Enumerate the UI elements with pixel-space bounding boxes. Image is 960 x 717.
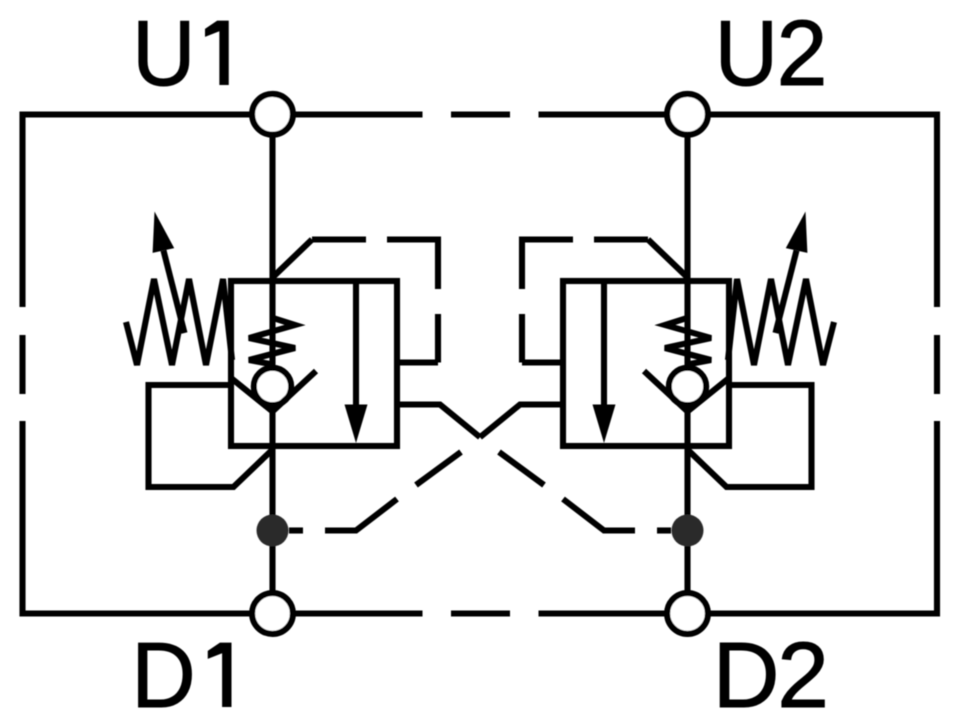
cross pilot line to V2 dash b: [325, 499, 397, 531]
junction node left: [257, 515, 289, 547]
valve V2 check spring: [665, 318, 711, 365]
valve V2 pilot diagonal: [648, 240, 687, 277]
valve V1 relief spring: [126, 279, 232, 365]
valve V2 check seat: [644, 371, 729, 412]
valve V2 flow arrowhead: [593, 405, 616, 444]
label D1: [131, 623, 231, 717]
enclosure border bottom-right corner: [710, 421, 937, 614]
port D1: [252, 593, 293, 634]
valve V1 body: [231, 281, 397, 446]
valve V1 adjust arrow shaft: [164, 251, 185, 334]
wire U1-D1 main line: [269, 115, 275, 614]
valve V1 flow arrow: [353, 283, 359, 408]
cross pilot line to V1 dash a: [657, 527, 671, 533]
valve V2 pilot dash c: [519, 314, 525, 363]
valve V2 flow arrow: [601, 283, 607, 408]
cross pilot line to V2 dash a: [289, 527, 303, 533]
label U2: [715, 1, 828, 105]
svg-text:U: U: [715, 2, 778, 106]
valve V1 check seat: [231, 371, 316, 412]
valve V1 flow arrowhead: [345, 405, 368, 444]
valve V2 pilot dash a: [594, 236, 648, 242]
svg-text:2: 2: [777, 1, 828, 105]
enclosure border top-right corner: [710, 115, 937, 308]
cross pilot line to V1 dash b: [563, 499, 635, 531]
enclosure border top segment b: [539, 111, 666, 117]
valve V1 upper pilot stub: [397, 359, 438, 365]
enclosure border top middle dash: [451, 111, 510, 117]
valve V1 check ball: [254, 368, 291, 405]
valve V1 pilot diagonal: [274, 240, 313, 277]
valve V2 adjust arrowhead: [786, 212, 808, 253]
valve V2 body: [563, 281, 729, 446]
enclosure border right middle dash: [934, 335, 940, 394]
valve V1 pilot dash a: [312, 236, 366, 242]
port U1: [252, 94, 293, 135]
enclosure border bottom middle dash: [451, 610, 510, 616]
wire U2-D2 main line: [684, 115, 690, 614]
valve V1 bypass loop: [149, 385, 272, 487]
port D2: [667, 593, 708, 634]
valve V2 pilot dash b: [522, 240, 573, 290]
label D2: [713, 623, 829, 717]
cross pilot line to V1 solid V: [397, 405, 480, 438]
cross pilot line to V2 dash c: [416, 452, 461, 485]
junction node right: [672, 515, 704, 547]
enclosure border top segment a: [295, 111, 423, 117]
enclosure border bottom segment a: [295, 610, 423, 616]
cross pilot line to V2 solid V: [480, 405, 563, 438]
svg-text:D: D: [131, 623, 195, 717]
valve V2 upper pilot stub: [522, 359, 563, 365]
valve V2 adjust arrow shaft: [776, 251, 797, 334]
port U2: [667, 94, 708, 135]
svg-text:D: D: [713, 623, 780, 717]
svg-text:2: 2: [777, 623, 829, 717]
enclosure border left middle dash: [19, 335, 25, 394]
valve V2 bypass loop: [689, 385, 812, 487]
enclosure border bottom-left corner: [23, 421, 251, 614]
enclosure border bottom segment b: [539, 610, 666, 616]
enclosure border top-left corner: [23, 115, 251, 308]
valve V1 adjust arrowhead: [153, 212, 175, 253]
valve V2 relief spring: [728, 279, 834, 365]
valve V1 check spring: [249, 318, 295, 365]
svg-text:U: U: [132, 1, 195, 105]
valve V1 pilot dash b: [387, 240, 438, 290]
valve V1 pilot dash c: [435, 314, 441, 363]
valve V2 check ball: [669, 368, 706, 405]
label U1: [132, 1, 229, 105]
cross pilot line to V1 dash c: [499, 452, 544, 485]
